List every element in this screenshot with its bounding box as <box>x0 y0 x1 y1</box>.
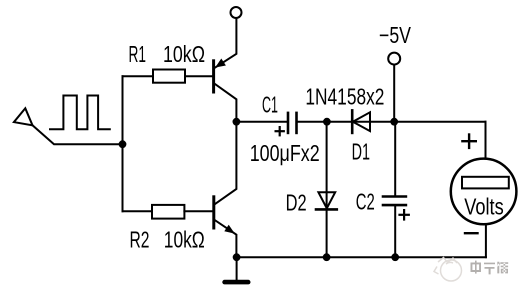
svg-text:D2: D2 <box>286 190 307 216</box>
svg-text:D1: D1 <box>352 139 370 165</box>
svg-text:10kΩ: 10kΩ <box>164 227 205 253</box>
svg-text:10kΩ: 10kΩ <box>163 41 205 67</box>
svg-text:Volts: Volts <box>464 194 504 220</box>
svg-text:−5V: −5V <box>379 22 411 48</box>
svg-text:R2: R2 <box>130 227 150 253</box>
svg-text:1N4158x2: 1N4158x2 <box>305 83 384 109</box>
svg-text:C1: C1 <box>262 92 278 118</box>
svg-text:100μFx2: 100μFx2 <box>250 140 320 166</box>
svg-text:R1: R1 <box>129 41 147 67</box>
svg-text:C2: C2 <box>356 188 375 214</box>
